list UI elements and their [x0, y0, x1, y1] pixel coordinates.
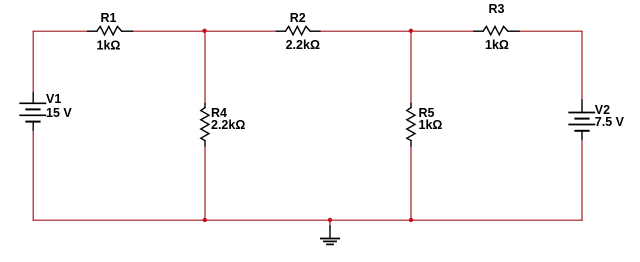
svg-text:R1: R1	[101, 11, 117, 25]
svg-text:15 V: 15 V	[46, 106, 72, 120]
svg-text:1kΩ: 1kΩ	[97, 38, 121, 52]
svg-text:R3: R3	[489, 2, 505, 16]
svg-text:1kΩ: 1kΩ	[419, 118, 443, 132]
svg-text:7.5 V: 7.5 V	[595, 115, 625, 129]
svg-text:1kΩ: 1kΩ	[485, 38, 509, 52]
svg-text:R2: R2	[290, 11, 306, 25]
svg-text:2.2kΩ: 2.2kΩ	[211, 118, 245, 132]
svg-text:V1: V1	[46, 92, 61, 106]
svg-text:2.2kΩ: 2.2kΩ	[286, 38, 320, 52]
